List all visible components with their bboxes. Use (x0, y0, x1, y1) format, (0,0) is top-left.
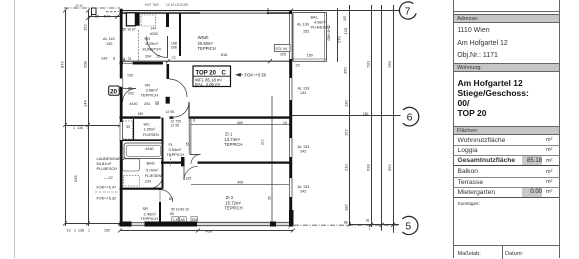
svg-text:210: 210 (261, 139, 265, 145)
svg-text:633: 633 (365, 164, 370, 171)
svg-text:1.95m²: 1.95m² (144, 128, 157, 132)
svg-text:TEPPICH: TEPPICH (141, 93, 158, 98)
svg-text:20: 20 (110, 88, 118, 95)
svg-text:818: 818 (221, 53, 227, 57)
svg-text:PU-BESCH: PU-BESCH (97, 166, 118, 171)
svg-text:210: 210 (344, 164, 349, 171)
svg-text:FLIESEN: FLIESEN (145, 173, 162, 178)
svg-text:6.29m²: 6.29m² (146, 41, 159, 46)
svg-text:KUNSTST.: KUNSTST. (143, 47, 162, 52)
svg-text:935: 935 (73, 175, 78, 182)
svg-text:8: 8 (113, 57, 115, 61)
svg-text:#160: #160 (146, 147, 154, 151)
svg-text:7: 7 (288, 226, 290, 230)
svg-text:7: 7 (405, 6, 411, 18)
svg-text:35: 35 (268, 196, 272, 200)
svg-text:A5: A5 (181, 218, 185, 222)
svg-text:531: 531 (365, 60, 370, 67)
svg-text:400: 400 (237, 181, 243, 185)
svg-text:DEH.9+10: DEH.9+10 (327, 25, 331, 41)
svg-text:130: 130 (77, 126, 83, 130)
svg-text:1: 1 (74, 229, 76, 233)
svg-text:95: 95 (185, 142, 189, 146)
svg-text:208: 208 (83, 61, 88, 68)
svg-text:72: 72 (172, 56, 176, 60)
svg-text:W0ZI: W0ZI (198, 35, 209, 40)
svg-text:206: 206 (171, 46, 177, 50)
svg-text:22: 22 (296, 64, 300, 68)
svg-text:EM: EM (192, 218, 197, 222)
svg-text:AL 133: AL 133 (298, 145, 310, 149)
svg-text:SR: SR (143, 206, 149, 211)
svg-text:150: 150 (307, 54, 313, 58)
svg-text:205: 205 (280, 53, 286, 57)
svg-text:6: 6 (407, 112, 413, 124)
svg-text:12 95: 12 95 (166, 110, 175, 114)
svg-text:#140: #140 (130, 102, 138, 106)
svg-text:12 95: 12 95 (171, 123, 180, 127)
svg-text:7.: 7. (369, 228, 372, 232)
svg-text:STL 94: STL 94 (276, 47, 287, 51)
svg-text:50 10 97: 50 10 97 (123, 28, 136, 32)
svg-text:350: 350 (343, 67, 348, 74)
svg-text:204: 204 (145, 55, 151, 59)
svg-text:AL 115: AL 115 (103, 37, 115, 41)
svg-text:BAL. 4.06 m²: BAL. 4.06 m² (195, 82, 221, 87)
svg-text:142: 142 (300, 150, 306, 154)
svg-text:8: 8 (193, 118, 195, 122)
svg-text:152: 152 (303, 30, 309, 34)
svg-text:FOK=+5.32: FOK=+5.32 (97, 197, 117, 201)
svg-text:439: 439 (206, 229, 212, 233)
svg-text:1: 1 (73, 126, 75, 130)
svg-text:150: 150 (104, 229, 110, 233)
svg-text:1,5: 1,5 (173, 218, 178, 222)
svg-text:TOP 20: TOP 20 (196, 70, 217, 76)
svg-text:160: 160 (363, 112, 369, 116)
svg-text:B5: B5 (128, 87, 132, 91)
svg-text:85: 85 (170, 212, 174, 216)
svg-text:ZI 1: ZI 1 (225, 131, 233, 136)
svg-text:10 10 LE2/10R: 10 10 LE2/10R (166, 3, 189, 7)
svg-text:TEPPICH: TEPPICH (225, 205, 243, 210)
svg-text:234: 234 (145, 180, 151, 184)
svg-text:FOK=+5.47: FOK=+5.47 (97, 186, 117, 190)
svg-text:144: 144 (151, 27, 157, 31)
svg-text:13: 13 (67, 229, 71, 233)
svg-text:143: 143 (101, 57, 107, 61)
svg-text:B9: B9 (169, 197, 173, 201)
svg-text:1: 1 (88, 229, 90, 233)
svg-text:40 30: 40 30 (75, 4, 83, 8)
svg-text:FOK=+5.50: FOK=+5.50 (245, 72, 267, 77)
svg-text:142: 142 (300, 91, 306, 95)
svg-text:50 10 90 10: 50 10 90 10 (171, 208, 189, 212)
svg-text:150: 150 (138, 112, 144, 116)
svg-text:130: 130 (344, 100, 349, 107)
svg-text:FLIESEN: FLIESEN (143, 133, 159, 137)
svg-text:552: 552 (387, 60, 392, 67)
svg-text:T30: T30 (127, 74, 133, 78)
svg-text:5.09m²: 5.09m² (146, 167, 159, 172)
svg-text:20: 20 (95, 14, 99, 18)
svg-text:872: 872 (60, 61, 65, 68)
svg-text:HST TAR: HST TAR (145, 3, 159, 7)
svg-text:82: 82 (342, 15, 347, 20)
svg-text:30: 30 (126, 125, 130, 129)
svg-text:182: 182 (344, 204, 349, 211)
svg-text:270: 270 (337, 36, 342, 43)
svg-text:15: 15 (122, 57, 126, 61)
svg-text:C: C (222, 70, 227, 76)
svg-text:142: 142 (300, 190, 306, 194)
svg-text:AL 133: AL 133 (298, 185, 310, 189)
svg-text:WC: WC (144, 122, 151, 126)
svg-text:←-22: ←-22 (104, 176, 113, 180)
svg-text:204: 204 (144, 102, 150, 106)
svg-text:TEPPICH: TEPPICH (224, 142, 242, 147)
svg-text:125: 125 (186, 177, 192, 181)
svg-text:12: 12 (155, 101, 159, 105)
svg-text:544: 544 (104, 14, 110, 18)
svg-text:AL 133: AL 133 (298, 87, 310, 91)
svg-text:15: 15 (283, 121, 287, 125)
svg-text:75: 75 (128, 57, 132, 61)
svg-text:13.74m²: 13.74m² (224, 137, 240, 142)
svg-text:152: 152 (83, 24, 88, 31)
svg-text:#200: #200 (150, 32, 158, 36)
svg-text:ZI 3: ZI 3 (226, 195, 234, 200)
svg-text:81: 81 (366, 219, 370, 223)
svg-text:136: 136 (78, 229, 84, 233)
svg-text:552: 552 (387, 164, 392, 171)
svg-text:TEPPICH: TEPPICH (167, 152, 184, 157)
svg-text:144: 144 (83, 100, 88, 107)
svg-text:12: 12 (156, 55, 160, 59)
svg-text:5: 5 (405, 220, 411, 232)
svg-text:AL 130: AL 130 (297, 23, 309, 27)
svg-text:TEPPICH: TEPPICH (141, 216, 158, 221)
svg-text:BAD: BAD (147, 161, 155, 166)
svg-text:130: 130 (106, 42, 112, 46)
svg-text:88: 88 (344, 221, 348, 225)
svg-text:1: 1 (87, 126, 89, 130)
svg-text:203: 203 (128, 91, 134, 95)
svg-text:400: 400 (237, 121, 243, 125)
svg-text:TEPPICH: TEPPICH (198, 46, 216, 51)
svg-text:4.06m²: 4.06m² (314, 21, 327, 25)
svg-text:120: 120 (343, 27, 348, 34)
svg-text:152: 152 (344, 129, 349, 136)
svg-text:BAL.: BAL. (311, 16, 319, 20)
